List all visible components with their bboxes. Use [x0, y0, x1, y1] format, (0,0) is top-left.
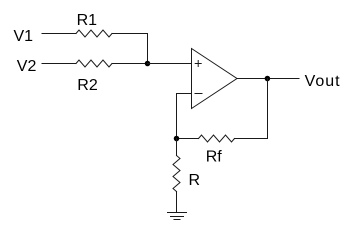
svg-text:V1: V1 [14, 28, 34, 45]
resistor R1 [76, 30, 112, 37]
wire R2 to junction [112, 63, 148, 65]
svg-text:Vout: Vout [305, 73, 341, 90]
resistor Rf [199, 135, 235, 142]
wire junction to op-amp plus input [148, 63, 192, 65]
svg-text:R1: R1 [77, 12, 98, 29]
wire R to ground [176, 192, 178, 213]
wire Rf to feedback node [177, 138, 199, 140]
wire R1 to corner [112, 33, 148, 35]
svg-text:Rf: Rf [206, 149, 223, 166]
wire V2 lead [42, 63, 76, 65]
svg-text:R2: R2 [77, 77, 98, 94]
resistor R2 [76, 60, 112, 67]
junction feedback node [174, 136, 180, 142]
op-amp minus input symbol [195, 93, 202, 95]
junction output node [265, 76, 271, 82]
wire minus input down to feedback node [176, 94, 178, 139]
wire V1 lead [42, 33, 76, 35]
svg-text:R: R [189, 172, 201, 189]
wire op-amp output [237, 78, 299, 80]
wire feedback bottom to Rf [235, 138, 268, 140]
wire minus input [177, 93, 192, 95]
op-amp U1 [192, 49, 238, 109]
junction summing node [145, 61, 151, 67]
resistor R [173, 156, 180, 192]
wire corner down to summing node [147, 34, 149, 64]
wire feedback node down to R [176, 139, 178, 156]
wire feedback down from output node [267, 79, 269, 139]
ground [168, 213, 187, 220]
op-amp plus input symbol [195, 61, 201, 67]
svg-text:V2: V2 [17, 58, 37, 75]
